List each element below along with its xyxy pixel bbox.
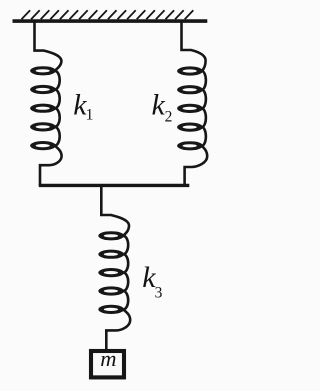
svg-text:3: 3 <box>155 285 163 302</box>
ceiling hatching <box>22 10 194 19</box>
ceiling beam <box>13 19 208 23</box>
spring k1 coils <box>30 66 56 150</box>
spring k1 wire <box>35 21 62 186</box>
svg-text:1: 1 <box>86 107 94 124</box>
svg-text:2: 2 <box>165 109 173 126</box>
spring k3 coils <box>98 231 124 314</box>
svg-text:k: k <box>152 89 166 122</box>
bar connecting springs <box>39 184 190 187</box>
mass box <box>91 351 124 377</box>
spring k2 wire <box>182 21 208 186</box>
spring k3 wire <box>101 184 130 351</box>
spring k2 coils <box>177 66 203 150</box>
svg-text:m: m <box>100 346 116 371</box>
